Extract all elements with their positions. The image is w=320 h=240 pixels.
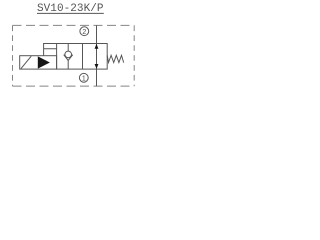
flow path line with ports (port2 stub + through line + port1 stub) [96,25,98,86]
dashed enclosure border right [133,25,135,86]
check valve seat V [64,55,73,61]
valve position divider [82,44,84,70]
solenoid diagonal [21,56,31,68]
check valve lower line [67,60,69,69]
dashed enclosure border left [12,25,14,86]
dashed enclosure border bottom [13,85,135,87]
background [0,0,147,97]
solenoid box [20,56,57,69]
port 1 circle [79,73,88,82]
check valve ball [65,51,72,58]
manual override bracket [44,44,57,56]
title underline [37,12,104,14]
arrowhead down [95,64,99,69]
dashed enclosure border top [13,24,135,26]
spring [107,55,124,62]
port 2 circle [80,27,89,36]
check valve upper line [67,44,69,52]
valve envelope [57,44,108,70]
svg-text:1: 1 [82,75,86,82]
svg-text:2: 2 [82,29,86,36]
arrowhead up [95,44,99,49]
solenoid black triangle [38,56,50,68]
